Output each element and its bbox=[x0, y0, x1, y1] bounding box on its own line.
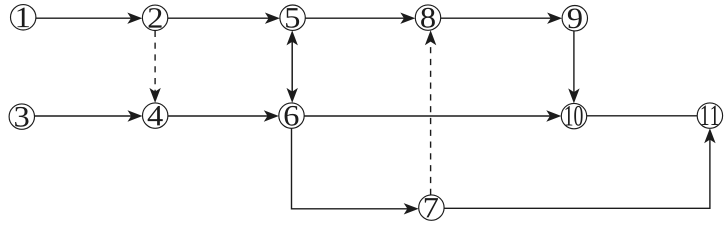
wire 8-9 bbox=[441, 17, 555, 19]
node 7 bbox=[419, 195, 444, 220]
arrowhead into node 6 (right) bbox=[264, 110, 279, 121]
label 1 bbox=[17, 8, 28, 27]
wire 9-10 bbox=[573, 31, 575, 96]
arrowhead into node 10 (right) bbox=[546, 110, 561, 121]
label 4 bbox=[148, 106, 163, 125]
arrowhead into node 8 bbox=[400, 13, 415, 24]
wire 4-6 bbox=[168, 115, 271, 117]
wire 3-4 bbox=[35, 115, 135, 117]
node 2 bbox=[142, 5, 167, 30]
arrowhead into node 4 (right) bbox=[128, 110, 143, 121]
arrowhead into node 7 (right) bbox=[404, 203, 419, 214]
node 8 bbox=[415, 5, 440, 30]
label 6 bbox=[285, 106, 299, 126]
arrowhead into node 5 bbox=[265, 13, 280, 24]
node 6 bbox=[279, 103, 304, 128]
arrowhead into node 11 (up) bbox=[704, 128, 715, 143]
wire 7-11 (right then up) bbox=[444, 136, 710, 209]
label 9 bbox=[568, 8, 582, 28]
label 7 bbox=[425, 198, 438, 217]
node 11 bbox=[697, 103, 722, 128]
wire 6-7 (down then right) bbox=[292, 128, 412, 209]
label 3 bbox=[15, 107, 28, 127]
label 5 bbox=[286, 8, 299, 28]
arrowhead into node 10 (down) bbox=[568, 88, 579, 103]
dashed wire 2-4 bbox=[154, 31, 156, 96]
node 5 bbox=[280, 5, 305, 30]
node 9 bbox=[562, 6, 587, 31]
label 2 bbox=[149, 8, 162, 28]
wire 6-10 bbox=[304, 115, 553, 117]
dashed wire 7-8 bbox=[430, 38, 432, 195]
label 8 bbox=[421, 8, 435, 28]
arrowhead into node 5 (up) bbox=[287, 30, 298, 45]
arrowhead into node 4 (down) bbox=[149, 88, 160, 103]
label 11 bbox=[702, 106, 719, 125]
arrowhead into node 8 (up) bbox=[425, 30, 436, 45]
wire 1-2 bbox=[36, 17, 134, 19]
node 1 bbox=[11, 5, 36, 30]
arrowhead into node 2 bbox=[127, 13, 142, 24]
double arrow wire 5-6 bbox=[291, 38, 293, 97]
node 10 bbox=[561, 103, 586, 128]
wire 10-11 (no arrowhead) bbox=[587, 115, 698, 117]
wire 2-5 bbox=[168, 17, 272, 19]
node 4 bbox=[143, 103, 168, 128]
node 3 bbox=[9, 104, 34, 129]
wire 5-8 bbox=[305, 17, 407, 19]
arrowhead into node 9 bbox=[547, 13, 562, 24]
arrowhead into node 6 (down) bbox=[287, 88, 298, 103]
label 10 bbox=[565, 106, 582, 126]
